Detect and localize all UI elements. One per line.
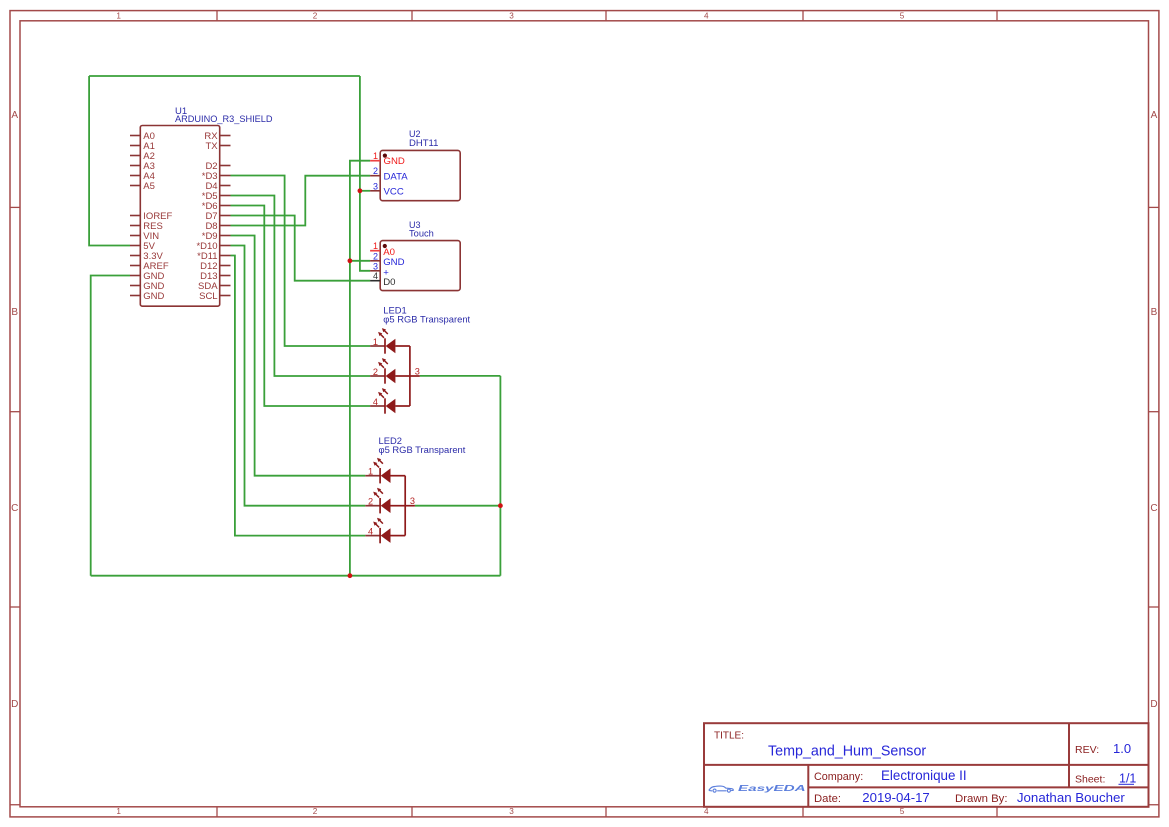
U1 left pin 5V y=245.5: [130, 241, 156, 252]
svg-text:3: 3: [410, 496, 415, 506]
LED LED2 diode pin 2 y=505.7: [365, 488, 405, 514]
U1 designator label: [175, 106, 273, 124]
wire D5 to LED1 pin2: [231, 196, 371, 377]
LED LED1 designator label: [383, 305, 470, 325]
U3 pin 3 +: [370, 261, 389, 278]
svg-text:Jonathan Boucher: Jonathan Boucher: [1017, 790, 1126, 805]
U1 right pin SCL y=295.5: [199, 291, 230, 302]
IC U2 DHT11 body: [380, 150, 460, 200]
wire GND vertical: [350, 161, 370, 576]
wire 5V left vertical: [89, 76, 130, 246]
wire GND bottom: [91, 575, 501, 577]
svg-text:4: 4: [368, 526, 373, 536]
wire D11 to LED2 pin4: [231, 256, 366, 536]
wire D8 to DATA: [231, 176, 371, 226]
U1 right pin D13 y=275.5: [200, 271, 230, 282]
U1 right pin D8 y=225.5: [205, 221, 230, 232]
IC U1 ARDUINO_R3_SHIELD body: [140, 126, 219, 307]
EasyEDA logo: [709, 784, 807, 793]
U1 left pin A1 y=145.5: [130, 141, 155, 152]
svg-text:2: 2: [368, 497, 373, 507]
svg-text:3: 3: [373, 261, 378, 271]
junction GND bottom: [348, 573, 353, 578]
svg-text:VCC: VCC: [384, 186, 404, 197]
svg-text:GND: GND: [384, 156, 405, 167]
svg-text:Date:: Date:: [814, 793, 841, 805]
svg-text:GND: GND: [143, 291, 164, 302]
U2 designator label: [409, 129, 438, 149]
wire D9 to LED2 pin1: [231, 236, 366, 476]
U1 left pin A2 y=155.5: [130, 151, 155, 162]
svg-text:5: 5: [900, 807, 905, 816]
svg-text:TITLE:: TITLE:: [714, 730, 744, 741]
U1 right pin D12 y=265.5: [200, 261, 230, 272]
U1 right pin TX y=145.5: [205, 141, 230, 152]
svg-text:Sheet:: Sheet:: [1075, 773, 1105, 785]
U3 pin-1 marker dot: [383, 244, 387, 248]
svg-text:3: 3: [415, 366, 420, 376]
U1 right pin *D6 y=205.5: [202, 201, 231, 212]
U1 right pin *D5 y=195.5: [202, 191, 231, 202]
U1 left pin RES y=225.5: [130, 221, 163, 232]
svg-text:GND: GND: [383, 257, 404, 268]
title block outer box: [704, 723, 1149, 807]
U1 right pin SDA y=285.5: [198, 281, 230, 292]
svg-text:2: 2: [313, 807, 318, 816]
wire 5V to VCC vertical: [360, 76, 370, 271]
U1 right pin D4 y=185.5: [205, 181, 230, 192]
svg-text:B: B: [1151, 307, 1158, 318]
svg-text:φ5 RGB Transparent: φ5 RGB Transparent: [379, 444, 466, 455]
svg-text:Company:: Company:: [814, 771, 863, 783]
U3 pin 2 GND: [370, 251, 404, 268]
svg-text:1: 1: [373, 337, 378, 347]
svg-text:SCL: SCL: [199, 291, 217, 302]
svg-text:ARDUINO_R3_SHIELD: ARDUINO_R3_SHIELD: [175, 114, 273, 124]
svg-text:C: C: [11, 503, 18, 514]
LED LED1 common bracket + pin 3: [410, 346, 420, 406]
LED LED1 diode pin 1 y=346: [370, 328, 410, 354]
svg-text:4: 4: [373, 271, 378, 281]
svg-text:1: 1: [116, 807, 121, 816]
wire LED2 pin3: [415, 505, 501, 507]
U1 left pin 3.3V y=255.5: [130, 251, 164, 262]
svg-text:3: 3: [509, 807, 514, 816]
svg-text:D: D: [1150, 699, 1157, 710]
svg-text:2: 2: [373, 251, 378, 261]
svg-text:D0: D0: [383, 277, 395, 288]
wire D10 to LED2 pin2: [231, 246, 366, 506]
U1 right pin D2 y=165.5: [205, 161, 230, 172]
U3 pin 4 D0: [370, 271, 395, 288]
ruler ticks top: [217, 11, 997, 21]
svg-text:3: 3: [373, 181, 378, 191]
svg-text:Drawn By:: Drawn By:: [955, 793, 1008, 805]
LED LED2 diode pin 4 y=535.6: [365, 518, 405, 544]
junction VCC: [358, 188, 363, 193]
LED LED2 diode pin 1 y=475.7: [365, 458, 405, 484]
LED LED1 diode pin 4 y=406: [370, 388, 410, 414]
U1 right pin *D3 y=175.5: [202, 171, 231, 182]
ruler letters left: [11, 110, 18, 710]
LED LED2 common bracket + pin 3: [405, 476, 415, 536]
svg-text:2: 2: [313, 12, 318, 21]
svg-text:A: A: [1151, 110, 1158, 121]
IC U3 Touch body: [380, 241, 460, 291]
wire LED1 pin3: [420, 375, 501, 377]
U3 pin 1 A0 (unconnected red stub): [370, 241, 395, 258]
svg-text:1: 1: [373, 241, 378, 251]
U3 designator label: [409, 220, 434, 238]
U1 right pin *D10 y=245.5: [196, 241, 230, 252]
svg-text:1.0: 1.0: [1113, 741, 1131, 756]
svg-text:TX: TX: [205, 141, 218, 152]
ruler ticks bottom: [217, 807, 997, 817]
svg-text:DATA: DATA: [384, 171, 409, 182]
svg-text:4: 4: [704, 807, 709, 816]
U1 right pin *D9 y=235.5: [202, 231, 231, 242]
U1 right pin D7 y=215.5: [205, 211, 230, 222]
wire GND left: [91, 276, 130, 576]
wire U3 GND tap: [350, 260, 370, 262]
svg-text:A5: A5: [143, 181, 155, 192]
U1 left pin A3 y=165.5: [130, 161, 155, 172]
svg-text:1: 1: [373, 151, 378, 161]
U1 left pin GND y=295.5: [130, 291, 165, 302]
svg-text:1: 1: [116, 12, 121, 21]
svg-text:5: 5: [900, 12, 905, 21]
wire D6 to LED1 pin4: [231, 206, 371, 407]
U1 right pin *D11 y=255.5: [197, 251, 230, 262]
U1 left pin IOREF y=215.5: [130, 211, 173, 222]
wire VCC tap: [360, 190, 370, 192]
svg-text:1/1: 1/1: [1119, 771, 1136, 785]
svg-text:2: 2: [373, 367, 378, 377]
svg-text:D: D: [11, 699, 18, 710]
svg-text:1: 1: [368, 467, 373, 477]
svg-text:EasyEDA: EasyEDA: [738, 784, 806, 793]
title block dividers: [704, 723, 1149, 807]
svg-text:4: 4: [704, 12, 709, 21]
svg-text:φ5 RGB Transparent: φ5 RGB Transparent: [383, 314, 470, 325]
right ruler band bottom cap: [1149, 804, 1159, 806]
svg-text:Electronique II: Electronique II: [881, 768, 967, 783]
junction LED2 pin3: [498, 503, 503, 508]
junction U3 GND: [348, 258, 353, 263]
sheet value 1/1: [1119, 771, 1137, 785]
svg-text:DHT11: DHT11: [409, 138, 438, 149]
wire LED cathode right vertical: [499, 376, 501, 576]
wire 5V top: [89, 75, 360, 77]
U1 left pin VIN y=235.5: [130, 231, 159, 242]
svg-text:2: 2: [373, 166, 378, 176]
wire D7 to D0: [231, 216, 371, 281]
wire D3 to LED1 pin1: [231, 176, 371, 347]
svg-text:3: 3: [509, 12, 514, 21]
U1 left pin GND y=285.5: [130, 281, 165, 292]
svg-text:REV:: REV:: [1075, 744, 1099, 756]
svg-text:B: B: [11, 307, 18, 318]
U1 left pin GND y=275.5: [130, 271, 165, 282]
svg-text:Touch: Touch: [409, 229, 434, 239]
U1 left pin A4 y=175.5: [130, 171, 155, 182]
ruler ticks left: [10, 207, 20, 607]
U2 pin 2 DATA: [370, 166, 408, 182]
left ruler band bottom cap: [10, 804, 20, 806]
ruler numbers top: [116, 12, 904, 21]
svg-text:4: 4: [373, 397, 378, 407]
svg-text:A: A: [11, 110, 18, 121]
U2 pin 1 GND: [370, 151, 405, 167]
U1 left pin A0 y=135.5: [130, 131, 155, 142]
U2 pin-1 marker dot: [383, 154, 387, 158]
U1 left pin A5 y=185.5: [130, 181, 155, 192]
ruler ticks right: [1149, 207, 1159, 607]
U1 left pin AREF y=265.5: [130, 261, 169, 272]
LED LED2 designator label: [379, 435, 466, 455]
svg-text:C: C: [1150, 503, 1157, 514]
LED LED1 diode pin 2 y=376: [370, 358, 410, 384]
U2 pin 3 VCC: [370, 181, 404, 197]
svg-text:Temp_and_Hum_Sensor: Temp_and_Hum_Sensor: [768, 743, 926, 759]
ruler letters right: [1150, 110, 1157, 710]
ruler numbers bottom: [116, 807, 904, 816]
U1 right pin RX y=135.5: [204, 131, 230, 142]
svg-text:2019-04-17: 2019-04-17: [862, 790, 929, 805]
